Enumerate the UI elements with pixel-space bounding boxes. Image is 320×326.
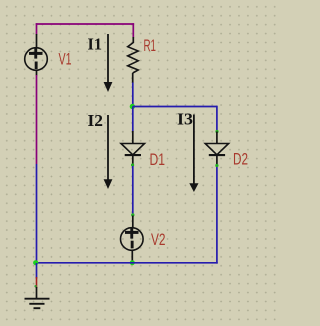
current arrow I1 [104,34,113,92]
node ground junction [33,260,38,265]
svg-text:D1: D1 [150,151,166,169]
diode D1 [121,131,145,164]
svg-text:I1: I1 [88,34,103,53]
wire junction to D1 (blue) [132,107,134,132]
wire branch vertical to D2 (blue) [216,106,218,130]
voltage source V1 [25,34,48,76]
diode D2 [205,132,228,165]
current arrow I3 [189,115,198,193]
svg-text:D2: D2 [233,150,248,168]
node V2 top [131,213,134,216]
wire left mid (magenta) [36,75,38,164]
svg-text:I3: I3 [177,109,193,128]
wire D2 to bottom rail (blue) [216,167,218,264]
node D2 cathode [215,164,218,167]
wire left top vertical (magenta) [36,23,38,34]
voltage source V2 [121,216,144,264]
resistor R1 [128,37,139,83]
svg-text:V1: V1 [59,50,72,68]
wire top rail (magenta) [36,23,134,25]
ground [25,263,50,308]
svg-text:V2: V2 [151,231,166,249]
node junction A [130,104,135,109]
node V2 bottom [130,260,135,265]
wire D1 to V2 (blue) [132,166,134,214]
node D1 cathode [131,163,134,166]
wire resistor to junction (blue) [132,83,134,108]
svg-text:I2: I2 [88,111,104,130]
svg-text:R1: R1 [144,37,157,55]
current arrow I2 [104,115,113,189]
wire right top vertical (magenta) [132,23,134,37]
wire left bottom (blue) [36,164,38,263]
wire branch horizontal (blue) [133,106,217,108]
node D2 anode [215,130,218,133]
wire bottom rail (blue) [37,262,218,264]
